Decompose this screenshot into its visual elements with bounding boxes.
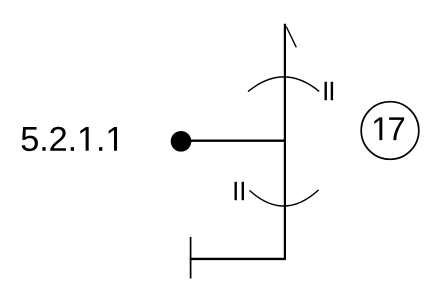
wire bottom horizontal [190,258,286,260]
bottom terminator tick [190,237,192,279]
reference bubble circle 17 [361,102,419,160]
wire vertical main line [284,24,286,259]
label II upper [325,82,334,100]
reference bubble text 17 [374,117,404,140]
upper crossing arc [248,77,319,92]
label II lower [235,182,245,200]
wire horizontal from node to vertical line [186,140,286,142]
node A reference label 5.2.1.1 [22,127,117,151]
wire diagonal break hook at top [286,27,296,48]
junction node (filled dot) [171,131,192,152]
lower crossing arc [250,190,319,206]
